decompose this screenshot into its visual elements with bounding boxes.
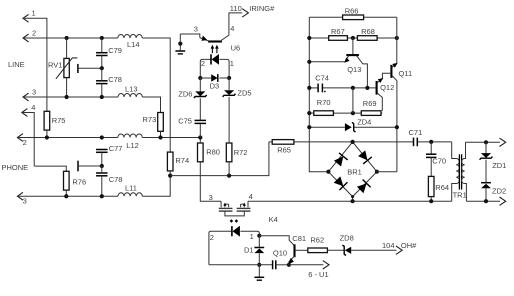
svg-text:IRING#: IRING# bbox=[249, 4, 275, 13]
node R75 bottom junction bbox=[45, 135, 49, 139]
svg-text:2: 2 bbox=[23, 138, 27, 147]
transistor Q11 collector bbox=[392, 76, 397, 172]
svg-text:3: 3 bbox=[32, 88, 36, 97]
svg-text:TR1: TR1 bbox=[453, 190, 467, 199]
wire R76 bottom lead bbox=[65, 190, 67, 196]
zener ZD5 bbox=[224, 90, 234, 95]
svg-text:6 - U1: 6 - U1 bbox=[308, 270, 328, 279]
svg-text:R75: R75 bbox=[52, 116, 66, 125]
resistor R68 bbox=[357, 36, 377, 41]
wire R66 row bbox=[309, 16, 342, 18]
bridge diode bottom-left bbox=[333, 176, 347, 190]
transistor Q13 bar bbox=[346, 54, 359, 56]
svg-text:C79: C79 bbox=[108, 46, 122, 55]
wire C77 bottom lead bbox=[101, 152, 103, 166]
node C74 right junction bbox=[351, 86, 355, 90]
wire R64 bottom lead bbox=[430, 197, 432, 202]
svg-text:L14: L14 bbox=[127, 40, 140, 49]
svg-text:L13: L13 bbox=[125, 84, 138, 93]
arrow OH# bbox=[396, 246, 402, 254]
wire C79 bottom lead bbox=[101, 56, 103, 69]
svg-text:BR1: BR1 bbox=[347, 168, 362, 177]
transformer TR1 secondary bbox=[462, 142, 467, 201]
svg-text:R67: R67 bbox=[331, 27, 345, 36]
zener ZD1 bbox=[485, 142, 487, 153]
wire secondary bottom bbox=[466, 200, 500, 202]
svg-text:C75: C75 bbox=[178, 117, 192, 126]
capacitor C71 bbox=[413, 138, 415, 147]
bridge diode bottom-right bbox=[356, 179, 370, 193]
svg-text:Q10: Q10 bbox=[273, 248, 287, 257]
zener ZD6 bbox=[195, 91, 205, 96]
wire to U1 pin 6 bbox=[289, 264, 324, 266]
node ground tap bbox=[178, 42, 182, 46]
wire C78 leads bbox=[101, 166, 103, 173]
wire pin1 to Q10 collector bbox=[259, 236, 294, 246]
ground (U6 emitter) bbox=[179, 34, 181, 50]
svg-text:PHONE: PHONE bbox=[2, 163, 29, 172]
svg-text:D1: D1 bbox=[244, 245, 254, 254]
node C78 bottom junction (PHONE) bbox=[100, 194, 104, 198]
wire C79 top lead bbox=[101, 38, 103, 53]
wire C75 bottom lead bbox=[199, 123, 201, 137]
node 4 (LINE connector pin 4) bbox=[22, 109, 28, 117]
resistor R74 bbox=[167, 152, 173, 171]
svg-text:K4: K4 bbox=[269, 215, 278, 224]
svg-text:R76: R76 bbox=[72, 178, 86, 187]
wire bridge top rail bbox=[294, 141, 413, 143]
node R72 bottom junction bbox=[227, 174, 231, 178]
resistor R64 bbox=[428, 176, 434, 196]
inductor L12 bbox=[118, 134, 142, 138]
wire cap to emitter junction bbox=[276, 264, 289, 266]
node C70 top junction bbox=[429, 140, 433, 144]
transistor Q11 bar bbox=[390, 65, 392, 78]
diode D3 bbox=[211, 74, 217, 82]
LED K4 bbox=[231, 226, 233, 236]
resistor R73 bbox=[158, 113, 164, 132]
photon diamonds K4 bbox=[230, 219, 234, 223]
svg-text:Q13: Q13 bbox=[347, 65, 361, 74]
arrow secondary bottom bbox=[500, 197, 506, 205]
svg-text:4: 4 bbox=[31, 103, 35, 112]
K4 MOSFET pair bbox=[220, 201, 222, 207]
wire Q11 base bbox=[382, 73, 391, 79]
wire L12 to R80 column bbox=[142, 137, 200, 139]
svg-text:R74: R74 bbox=[175, 156, 189, 165]
node D1 bottom junction bbox=[257, 263, 261, 267]
node BR1 left corner bbox=[326, 170, 330, 174]
resistor R70 bbox=[314, 111, 334, 116]
svg-text:C78: C78 bbox=[108, 75, 122, 84]
svg-text:2: 2 bbox=[210, 233, 214, 242]
node 3 (LINE connector pin 3) bbox=[23, 93, 29, 101]
photon arrows U6 bbox=[211, 47, 213, 53]
node R67/R68 junction bbox=[351, 36, 355, 40]
node K4 pin1 junction bbox=[257, 234, 261, 238]
resistor R80 bbox=[198, 143, 204, 162]
svg-text:2: 2 bbox=[201, 59, 205, 68]
resistor R76 bbox=[64, 171, 70, 190]
wire PHONE row 2 bbox=[17, 137, 117, 139]
node R68 right junction bbox=[395, 36, 399, 40]
svg-text:D3: D3 bbox=[210, 82, 220, 91]
wire LINE row 2 bbox=[23, 37, 118, 39]
node rail R70 junction bbox=[307, 111, 311, 115]
transistor Q11 emitter bbox=[392, 64, 397, 68]
node ZD2 bottom junction bbox=[484, 199, 488, 203]
transistor Q12 emitter bbox=[377, 79, 382, 83]
wire BR1 right corner to ZD4 junction bbox=[377, 171, 397, 173]
node C77 top junction bbox=[100, 135, 104, 139]
wire R70 row bbox=[309, 112, 314, 114]
wire Q13 emitter row bbox=[309, 61, 345, 63]
svg-text:C77: C77 bbox=[109, 144, 123, 153]
wire R80 top lead bbox=[199, 138, 201, 144]
svg-text:OH#: OH# bbox=[401, 241, 417, 250]
node C77/C78 midpoint bbox=[100, 164, 104, 168]
node R64 bottom junction bbox=[429, 199, 433, 203]
wire Q13 base bbox=[352, 38, 354, 54]
wire R67 row bbox=[309, 37, 328, 39]
arrow secondary top bbox=[500, 138, 506, 146]
svg-text:C74: C74 bbox=[315, 73, 329, 82]
svg-text:ZD1: ZD1 bbox=[492, 161, 506, 170]
svg-text:1: 1 bbox=[32, 9, 36, 18]
capacitor C10 bbox=[272, 260, 274, 269]
svg-text:U6: U6 bbox=[231, 43, 241, 52]
svg-text:ZD2: ZD2 bbox=[492, 186, 506, 195]
wire PHONE row 3 bbox=[17, 195, 118, 197]
diode D1 bbox=[258, 236, 260, 247]
wire C74 to R70 junction bbox=[352, 88, 354, 113]
node RV1 top junction bbox=[65, 36, 69, 40]
node ZD1 top junction bbox=[484, 140, 488, 144]
ground (D1) bbox=[258, 265, 260, 277]
bridge diode top-left bbox=[333, 153, 347, 167]
wire R74 bottom lead bbox=[169, 171, 171, 176]
svg-text:L11: L11 bbox=[125, 183, 137, 192]
wire secondary top bbox=[466, 141, 501, 143]
wire R73 bottom lead bbox=[160, 131, 162, 137]
node BR1 right corner bbox=[375, 170, 379, 174]
wire ZD1 to ZD2 bbox=[485, 160, 487, 182]
node BR1 bottom corner bbox=[351, 195, 354, 198]
wire Q10 base to R62 bbox=[295, 249, 308, 251]
capacitor C70 bbox=[430, 142, 432, 154]
wire C74 row bbox=[309, 87, 318, 89]
wire C78 bottom lead bbox=[101, 84, 103, 97]
resistor R69 bbox=[361, 111, 381, 116]
wire R80 to K4 pin 3 bbox=[200, 162, 221, 201]
wire Q11 emitter column bbox=[396, 17, 398, 63]
transistor Q13 collector bbox=[357, 56, 368, 88]
wire U6 pin3 bbox=[180, 34, 200, 38]
wire pin1 to R75 column bbox=[23, 18, 47, 111]
capacitor C78 (PHONE) bbox=[96, 172, 108, 174]
node ZD4 right junction bbox=[395, 125, 399, 129]
node U6 pin2 junction bbox=[198, 76, 202, 80]
svg-text:R62: R62 bbox=[310, 235, 324, 244]
wire R76 branch bbox=[34, 166, 66, 171]
wire K4 bottom rail bbox=[209, 264, 273, 266]
wire ZD5 top lead bbox=[228, 78, 230, 90]
node Q10 emitter junction bbox=[287, 263, 291, 267]
node 2 (LINE connector pin 2) bbox=[23, 34, 29, 42]
svg-text:LINE: LINE bbox=[8, 60, 25, 69]
opto-transistor U6 bar bbox=[208, 40, 222, 42]
svg-text:ZD6: ZD6 bbox=[178, 90, 192, 99]
wire R72 bottom lead bbox=[228, 162, 230, 176]
node rail R67 junction bbox=[307, 36, 311, 40]
inductor L13 bbox=[118, 94, 142, 98]
svg-text:RV1: RV1 bbox=[48, 61, 62, 70]
node C78 bottom junction bbox=[100, 95, 104, 99]
node U6 pin1 junction bbox=[227, 76, 231, 80]
svg-text:3: 3 bbox=[209, 193, 213, 202]
node R70/R69 junction bbox=[351, 111, 355, 115]
svg-text:Q12: Q12 bbox=[380, 83, 394, 92]
capacitor C75 bbox=[195, 119, 207, 121]
node C79 top junction bbox=[100, 36, 104, 40]
transistor Q10 bar bbox=[293, 244, 295, 257]
wire R65 left lead bbox=[269, 141, 272, 143]
node C79/C78 midpoint bbox=[100, 66, 104, 70]
svg-text:1: 1 bbox=[250, 232, 254, 241]
wire pin4 down to PHONE branch bbox=[22, 113, 34, 167]
transistor Q12 bar bbox=[376, 81, 378, 95]
svg-text:R73: R73 bbox=[143, 115, 157, 124]
svg-text:ZD8: ZD8 bbox=[340, 234, 354, 243]
transistor Q12 collector bbox=[377, 93, 382, 111]
node Q13 collector junction bbox=[365, 86, 369, 90]
svg-text:4: 4 bbox=[230, 24, 234, 33]
bridge diode top-right bbox=[357, 150, 371, 164]
bridge BR1 outline bbox=[328, 142, 377, 201]
wire D3 row bbox=[200, 77, 211, 79]
wire C71 to TR1 bbox=[418, 141, 452, 143]
svg-text:104: 104 bbox=[382, 241, 395, 250]
svg-text:ZD4: ZD4 bbox=[357, 117, 371, 126]
svg-text:3: 3 bbox=[23, 197, 27, 206]
svg-text:3: 3 bbox=[194, 24, 198, 33]
transistor Q10 emitter bbox=[289, 256, 295, 265]
electrode bar (LINE arrester) bbox=[77, 64, 79, 73]
opto-transistor U6 collector bbox=[220, 13, 242, 41]
node R80 top junction bbox=[198, 135, 202, 139]
node 1 (LINE connector pin 1) bbox=[23, 14, 29, 22]
wire mid rail to R65 riser bbox=[170, 142, 269, 176]
U6 LED package outline bbox=[200, 59, 229, 78]
svg-text:R80: R80 bbox=[206, 148, 220, 157]
svg-text:R66: R66 bbox=[345, 7, 359, 16]
wire L14 to R74 column bbox=[142, 38, 170, 152]
node 3 (PHONE connector pin 3) bbox=[17, 192, 23, 200]
IRING# output arrow bbox=[242, 9, 248, 17]
resistor R62 bbox=[308, 248, 328, 253]
node BR1 top corner bbox=[351, 140, 355, 144]
svg-text:C78: C78 bbox=[109, 175, 123, 184]
node R74 bottom junction bbox=[168, 174, 172, 178]
inductor L14 bbox=[118, 34, 142, 38]
svg-text:C81: C81 bbox=[292, 234, 306, 243]
wire RV1 top lead bbox=[66, 38, 68, 58]
wire left rail (to bridge) bbox=[309, 17, 328, 171]
svg-text:2: 2 bbox=[32, 28, 36, 37]
transformer TR1 core bbox=[458, 154, 460, 189]
svg-text:R69: R69 bbox=[363, 99, 377, 108]
node rail C74 junction bbox=[307, 86, 311, 90]
arrow to U1 pin 6 bbox=[323, 261, 329, 269]
node R76 bottom junction bbox=[64, 194, 68, 198]
wire R62 to ZD8 bbox=[327, 249, 344, 251]
resistor R67 bbox=[329, 36, 348, 41]
wire ZD8 to OH# bbox=[351, 249, 396, 251]
zener ZD8 bbox=[342, 245, 346, 255]
svg-text:R72: R72 bbox=[234, 148, 248, 157]
wire R75 bottom lead bbox=[46, 130, 48, 137]
svg-text:R70: R70 bbox=[317, 98, 331, 107]
node 2 (PHONE connector pin 2) bbox=[17, 134, 23, 142]
node RV1 bottom junction bbox=[65, 95, 69, 99]
resistor R66 bbox=[343, 15, 364, 20]
wire ZD6 to C75 bbox=[199, 98, 201, 120]
varistor RV1 bbox=[64, 58, 69, 77]
svg-text:C71: C71 bbox=[409, 128, 423, 137]
capacitor C79 bbox=[96, 52, 108, 54]
opto-transistor U6 emitter bbox=[200, 38, 209, 42]
svg-text:ZD5: ZD5 bbox=[237, 88, 251, 97]
capacitor C77 bbox=[96, 149, 108, 151]
wire RV1 bottom lead bbox=[66, 78, 68, 97]
svg-text:R68: R68 bbox=[361, 27, 375, 36]
wire L13 to R73 bbox=[142, 97, 160, 113]
resistor R72 bbox=[226, 143, 232, 162]
LED U6 bbox=[210, 54, 212, 64]
node rail Q13 emitter junction bbox=[307, 60, 311, 64]
inductor L11 bbox=[118, 193, 142, 197]
wire ZD6 top lead bbox=[199, 78, 201, 91]
zener ZD2 bbox=[481, 182, 491, 184]
capacitor C78 (LINE) bbox=[96, 80, 108, 82]
wire LINE row 3 bbox=[23, 96, 118, 98]
svg-text:R65: R65 bbox=[277, 145, 291, 154]
svg-text:110: 110 bbox=[230, 4, 242, 13]
resistor R65 bbox=[272, 140, 294, 145]
capacitor C74 bbox=[317, 84, 319, 93]
resistor R75 bbox=[44, 111, 50, 130]
svg-text:Q11: Q11 bbox=[399, 69, 413, 78]
svg-text:1: 1 bbox=[230, 59, 234, 68]
wire K4 pin4 rail to TR1 bbox=[248, 200, 452, 202]
node rail ZD4 junction bbox=[307, 125, 311, 129]
wire ZD4 row bbox=[309, 126, 345, 128]
wire C78 top lead bbox=[101, 68, 103, 81]
transformer TR1 primary bbox=[452, 142, 460, 201]
wire R72 top lead bbox=[228, 97, 230, 143]
node R73 bottom junction bbox=[158, 135, 162, 139]
zener ZD4 bbox=[345, 123, 352, 131]
svg-text:4: 4 bbox=[249, 192, 253, 201]
svg-text:R64: R64 bbox=[435, 183, 449, 192]
transistor Q13 emitter bbox=[345, 56, 348, 62]
svg-text:C70: C70 bbox=[432, 157, 446, 166]
wire L11 riser to R74 junction bbox=[142, 176, 170, 197]
electrode bar (PHONE arrester) bbox=[77, 161, 79, 172]
svg-text:L12: L12 bbox=[126, 141, 139, 150]
K4 LED package outline bbox=[209, 231, 259, 265]
